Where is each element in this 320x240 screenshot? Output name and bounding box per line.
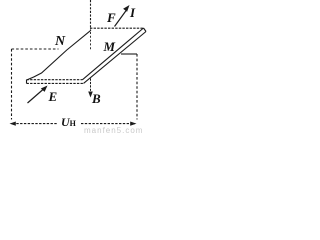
label F [107,11,116,24]
label E [49,90,58,103]
plate right end cap [144,28,147,32]
label UH [61,116,76,128]
dashed connector right vertical [136,54,138,120]
arrowhead UH left [10,122,16,126]
B field hidden segment inside plate [90,32,92,50]
label I [130,6,135,19]
arrow I [115,10,127,27]
UH dimension line left part [13,123,58,125]
dashed connector left horizontal [12,48,59,50]
UH dimension line right part [81,123,135,125]
label N [55,35,65,49]
wire vertical lead at top [90,0,92,30]
watermark manfen5.com [84,126,143,135]
label B [92,92,101,105]
plate top face right edge [83,28,144,80]
arrow B [90,79,92,93]
plate front face bottom edge [27,82,84,84]
label M [104,40,116,53]
plate top face left edge [27,30,91,80]
dashed connector left vertical [11,49,13,120]
wire M lead horizontal [121,53,137,55]
arrow E [28,90,44,104]
plate bottom right edge [84,32,147,84]
arrowhead UH right [130,122,136,126]
plate top face back edge [90,27,144,29]
plate top face front edge [27,79,83,81]
plate left end cap edge [26,80,28,84]
